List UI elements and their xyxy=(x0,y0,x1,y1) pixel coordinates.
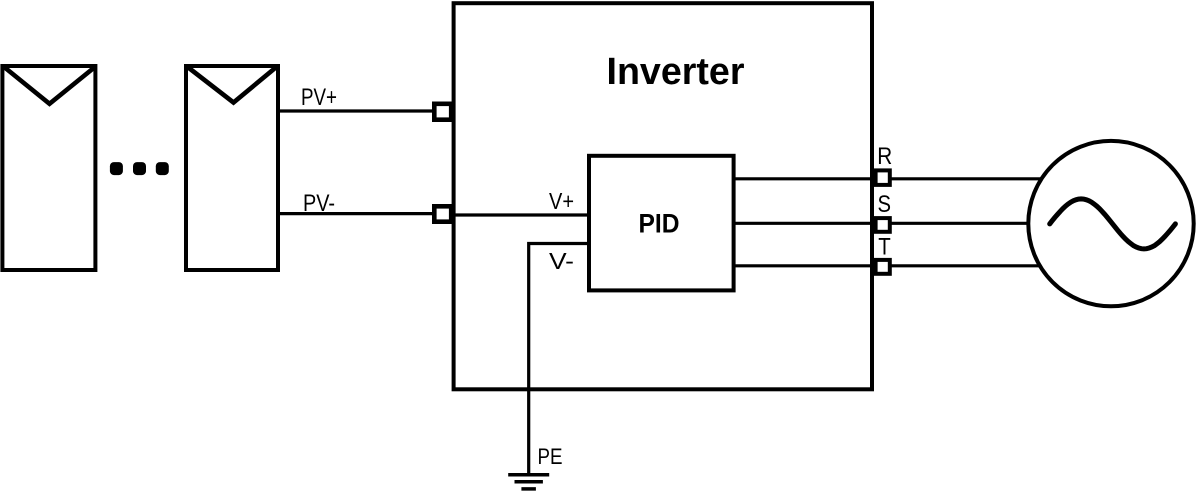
svg-text:T: T xyxy=(878,234,891,261)
ground PE xyxy=(508,475,549,489)
svg-text:PV-: PV- xyxy=(303,190,335,217)
svg-text:PE: PE xyxy=(538,444,563,469)
svg-text:R: R xyxy=(877,143,892,170)
wire V- xyxy=(529,244,589,474)
svg-text:V+: V+ xyxy=(549,188,574,214)
wire R xyxy=(734,177,1042,180)
inverter box xyxy=(454,3,872,389)
wire S xyxy=(734,222,1029,225)
terminal square PV+ xyxy=(434,104,451,120)
solar panel PV2 xyxy=(186,66,278,270)
terminal square R xyxy=(876,170,890,185)
terminal square S xyxy=(876,218,890,232)
wire PV- xyxy=(278,212,434,215)
wire V+ xyxy=(451,213,589,216)
terminal square T xyxy=(876,260,890,274)
AC source circle xyxy=(1028,141,1193,306)
PID box xyxy=(589,156,734,291)
terminal square PV- xyxy=(434,206,451,221)
svg-text:Inverter: Inverter xyxy=(607,51,745,93)
ellipsis dots xyxy=(110,162,169,175)
solar panel PV1 xyxy=(2,66,95,270)
wire T xyxy=(734,264,1042,267)
svg-text:PV+: PV+ xyxy=(301,84,337,111)
AC sine wave xyxy=(1050,199,1176,249)
svg-text:PID: PID xyxy=(639,208,680,238)
svg-text:S: S xyxy=(878,191,892,218)
wire PV+ xyxy=(278,109,434,112)
svg-text:V-: V- xyxy=(549,248,574,274)
